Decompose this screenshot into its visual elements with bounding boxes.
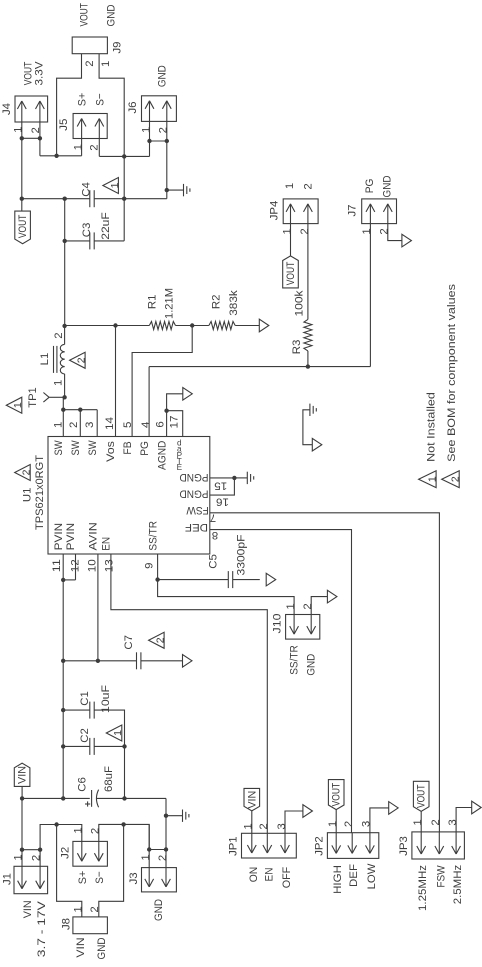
- J1 pin 2 number: [30, 855, 42, 861]
- connector J6 (GND banana): [142, 96, 177, 122]
- svg-text:2: 2: [89, 906, 101, 912]
- svg-text:4: 4: [140, 422, 152, 428]
- svg-text:JP2: JP2: [314, 836, 326, 856]
- J9 pin 2 number: [84, 60, 96, 66]
- svg-text:J6: J6: [127, 101, 139, 113]
- R3 value 100k: [294, 290, 306, 316]
- U1 right pin names: [179, 471, 208, 533]
- resistor R2: [209, 322, 235, 330]
- wire C3 right: [94, 240, 124, 242]
- U1 pin 12 PVIN wire: [75, 554, 77, 580]
- svg-text:DEF: DEF: [348, 864, 360, 887]
- svg-text:SS/TR: SS/TR: [289, 645, 301, 675]
- wire GND rail top: [94, 197, 167, 201]
- net flag VOUT at rail: [15, 199, 31, 244]
- svg-text:R2: R2: [211, 295, 223, 310]
- wire VIN to J8 pin1: [54, 822, 81, 917]
- svg-text:2.5MHz: 2.5MHz: [452, 864, 464, 904]
- note text Not Installed: [426, 392, 438, 462]
- svg-text:1: 1: [140, 127, 152, 133]
- svg-text:PG: PG: [364, 179, 376, 194]
- wire JP3 pin3 to GND arrow: [456, 808, 472, 832]
- J3 refdes label: [128, 872, 140, 884]
- svg-text:J10: J10: [272, 614, 284, 634]
- U1 top pin names: [53, 438, 183, 472]
- J3 pin 2 number: [157, 855, 169, 861]
- GND net arrow at J10: [327, 590, 337, 603]
- JP4 pin 1 number: [282, 228, 294, 234]
- svg-text:PVIN: PVIN: [65, 523, 77, 551]
- wire J6 pin tie: [147, 139, 169, 143]
- svg-text:GND: GND: [157, 65, 169, 87]
- svg-text:VOUT: VOUT: [331, 783, 343, 807]
- svg-text:9: 9: [143, 563, 155, 569]
- svg-text:C7: C7: [123, 635, 135, 650]
- ground symbol at J6: [165, 184, 190, 196]
- capacitor C4: [90, 190, 94, 207]
- GND net arrow at J7: [402, 234, 412, 247]
- svg-text:1: 1: [53, 380, 65, 386]
- connector J2 (sense S+ S-): [73, 841, 108, 866]
- svg-text:2: 2: [90, 828, 102, 834]
- wire SS/TR to J10: [158, 580, 295, 615]
- svg-text:3: 3: [84, 422, 96, 428]
- svg-text:EN: EN: [101, 537, 113, 551]
- R1 value 1.21M: [164, 288, 176, 319]
- svg-text:1: 1: [140, 854, 152, 860]
- connector J5 (sense S+ S-): [73, 114, 107, 139]
- capacitor C5: [158, 571, 260, 588]
- PGND net arrow at tie: [312, 438, 322, 451]
- svg-text:EN: EN: [263, 868, 275, 882]
- svg-text:J3: J3: [128, 872, 140, 884]
- J4 refdes label: [1, 103, 13, 115]
- capacitor C7: [137, 652, 183, 669]
- svg-text:3: 3: [447, 819, 459, 825]
- svg-text:JP3: JP3: [398, 836, 410, 856]
- svg-text:S+: S+: [77, 92, 89, 106]
- J7 net labels PG GND: [364, 176, 394, 198]
- svg-text:2: 2: [343, 821, 355, 827]
- wire J9 pin2 to VOUT sense: [57, 54, 82, 156]
- net flag VIN at JP1 pin1: [244, 788, 260, 833]
- svg-text:J9: J9: [112, 41, 124, 53]
- svg-text:14: 14: [104, 417, 116, 430]
- J1 net label VIN: [22, 900, 34, 918]
- J1 voltage label 3.7 - 17V: [36, 901, 48, 957]
- svg-text:5: 5: [122, 422, 134, 428]
- C1 refdes label: [79, 691, 91, 706]
- svg-text:10: 10: [86, 559, 98, 572]
- J4 pin 1 number: [12, 127, 24, 133]
- ground symbol at tie: [310, 404, 316, 416]
- U1 pin 7 FSW wire: [210, 513, 440, 832]
- wire J9 pin1 to GND rail: [99, 54, 124, 241]
- wire VOUT sense: [40, 154, 82, 158]
- J7 refdes label: [347, 204, 359, 216]
- svg-text:PGND: PGND: [179, 471, 208, 483]
- svg-text:2: 2: [450, 476, 462, 482]
- C5 refdes label: [208, 554, 220, 569]
- svg-text:11: 11: [51, 559, 63, 572]
- svg-text:17: 17: [168, 416, 180, 429]
- J8 labels VIN GND: [75, 937, 108, 959]
- svg-text:GND: GND: [306, 654, 318, 676]
- svg-text:TP1: TP1: [27, 387, 39, 408]
- note text See BOM for component values: [446, 284, 458, 462]
- svg-text:Vos: Vos: [105, 441, 117, 462]
- SW pins tie wire: [61, 408, 97, 412]
- svg-text:C2: C2: [79, 728, 91, 743]
- svg-text:J1: J1: [2, 873, 14, 885]
- svg-text:J7: J7: [347, 204, 359, 216]
- svg-text:2: 2: [258, 823, 270, 829]
- svg-text:ON: ON: [248, 867, 260, 882]
- J10 pin 1 number: [285, 603, 297, 609]
- svg-text:15: 15: [214, 480, 227, 492]
- capacitor C6 electrolytic: [85, 790, 166, 808]
- net flag VOUT at JP3 pin1: [413, 781, 429, 832]
- note triangle 1 at C4: [103, 178, 121, 194]
- wire J7 pin2 to GND arrow: [388, 224, 402, 241]
- svg-text:VIN: VIN: [246, 791, 258, 809]
- J8 pin 1 number: [72, 906, 84, 912]
- note triangle 2 at C7: [149, 632, 167, 648]
- connector J8 (VIN header): [73, 917, 108, 934]
- svg-text:1: 1: [73, 827, 85, 833]
- svg-text:1: 1: [282, 228, 294, 234]
- wire PVIN vertical: [62, 580, 64, 799]
- svg-text:3.3V: 3.3V: [34, 61, 46, 85]
- svg-text:FB: FB: [122, 441, 134, 454]
- svg-text:SW: SW: [70, 440, 82, 455]
- J9 net labels VOUT GND: [79, 3, 118, 27]
- svg-text:1.21M: 1.21M: [164, 288, 176, 319]
- J6 net label GND: [157, 65, 169, 87]
- svg-text:383k: 383k: [228, 290, 240, 316]
- connector J9 (output header): [72, 37, 107, 54]
- AGND net arrow: [183, 388, 193, 401]
- svg-text:SW: SW: [87, 440, 99, 455]
- U1 part number TPS621x0RGT: [34, 455, 46, 530]
- svg-text:SW: SW: [53, 440, 65, 455]
- svg-text:7: 7: [210, 511, 216, 523]
- connector J10: [286, 615, 320, 640]
- svg-text:1: 1: [412, 819, 424, 825]
- C6 refdes label: [77, 777, 89, 792]
- wire J1 pin2 up: [40, 825, 82, 867]
- net flag VIN at rail: [14, 763, 30, 798]
- wire AVIN C7 rail: [61, 659, 137, 663]
- wire VOUT vertical to L1: [64, 199, 66, 326]
- wire J4 pin tie: [20, 136, 43, 140]
- svg-text:1: 1: [12, 854, 24, 860]
- C2 refdes label: [79, 728, 91, 743]
- L1 pin 1 number: [53, 380, 65, 386]
- wire J2 pin2 GND run: [99, 822, 149, 849]
- wire J6 pin2 down to GND: [166, 121, 168, 198]
- note triangle 1 at C2: [106, 725, 124, 741]
- svg-text:1: 1: [100, 61, 112, 67]
- svg-text:12: 12: [69, 559, 81, 572]
- J10 pin 2 number: [302, 603, 314, 609]
- svg-text:HIGH: HIGH: [332, 865, 344, 894]
- C4 refdes label: [81, 182, 93, 197]
- note triangle 1 legend: [419, 471, 439, 488]
- capacitor C1: [61, 702, 125, 799]
- svg-text:1: 1: [243, 823, 255, 829]
- wire R1 to R2: [176, 323, 209, 327]
- svg-text:VOUT: VOUT: [285, 262, 297, 286]
- wire J10 pin2 to GND arrow: [311, 597, 327, 615]
- JP2 position labels: [332, 863, 378, 894]
- test point TP1: [43, 393, 66, 403]
- J4 net labels VOUT 3.3V: [23, 61, 46, 85]
- svg-text:J8: J8: [61, 918, 73, 930]
- svg-text:GND: GND: [96, 938, 108, 960]
- connector J7 (PG monitor): [362, 199, 397, 224]
- J6 pin 1 number: [140, 127, 152, 133]
- J2 pin 2 number: [90, 828, 102, 834]
- inductor L1: [54, 326, 65, 397]
- U1 pin 16 PGND wire: [210, 478, 235, 495]
- U1 pin 15 PGND wire: [210, 476, 237, 480]
- JP3 position labels: [417, 864, 464, 911]
- wire GND sense: [99, 154, 149, 158]
- R1 refdes label: [147, 295, 159, 310]
- wire J3 pin1 up: [148, 824, 150, 867]
- wire VOUT feedback rail: [62, 323, 149, 328]
- svg-text:1: 1: [284, 183, 296, 189]
- svg-text:TPS621x0RGT: TPS621x0RGT: [34, 455, 46, 530]
- J5 labels S+ S-: [77, 92, 107, 106]
- J6 refdes label: [127, 101, 139, 113]
- J4 pin 2 number: [30, 127, 42, 133]
- svg-text:68uF: 68uF: [103, 766, 115, 792]
- R3 refdes label: [291, 340, 303, 355]
- capacitor C2: [61, 738, 127, 755]
- svg-text:R1: R1: [147, 295, 159, 310]
- J10 refdes label: [272, 614, 284, 634]
- svg-text:LOW: LOW: [366, 863, 378, 889]
- L1 refdes label: [39, 353, 51, 366]
- wire JP4 pin1 to VOUT flag: [290, 224, 292, 256]
- connector JP3: [412, 832, 465, 859]
- C6 value 68uF: [103, 766, 115, 792]
- U1 pin 6 AGND wire: [164, 394, 183, 437]
- ground symbol at PGND: [234, 472, 253, 484]
- J2 labels S+ S-: [77, 870, 106, 884]
- svg-text:2: 2: [430, 819, 442, 825]
- svg-text:2: 2: [84, 60, 96, 66]
- svg-text:1: 1: [327, 821, 339, 827]
- svg-text:C5: C5: [208, 554, 220, 569]
- svg-text:S+: S+: [77, 870, 89, 884]
- svg-text:C4: C4: [81, 182, 93, 197]
- wire JP2 pin3 to GND arrow: [370, 808, 389, 833]
- svg-text:1: 1: [112, 730, 124, 736]
- svg-text:OFF: OFF: [281, 867, 293, 889]
- JP1 position labels: [248, 867, 293, 889]
- JP1 refdes label: [228, 836, 240, 856]
- resistor R3: [304, 319, 312, 366]
- svg-text:16: 16: [216, 496, 229, 508]
- svg-text:2: 2: [302, 603, 314, 609]
- GND net arrow at C7: [183, 655, 193, 668]
- svg-text:VOUT: VOUT: [416, 784, 428, 808]
- net flag VOUT at JP4: [283, 256, 299, 288]
- svg-text:6: 6: [154, 421, 166, 427]
- U1 bottom pin numbers: [51, 559, 155, 572]
- svg-text:3: 3: [276, 823, 288, 829]
- svg-text:C6: C6: [77, 777, 89, 792]
- svg-text:VOUT: VOUT: [79, 3, 91, 27]
- JP2 refdes label: [314, 836, 326, 856]
- U1 pin 1 SW wire: [62, 397, 64, 436]
- svg-text:2: 2: [157, 855, 169, 861]
- U1 pin 14 Vos wire: [115, 326, 117, 437]
- J8 pin 2 number: [89, 906, 101, 912]
- svg-text:U1: U1: [22, 488, 34, 503]
- ground symbol at C6: [166, 810, 189, 822]
- connector JP2: [327, 833, 378, 859]
- J2 refdes label: [60, 847, 72, 859]
- U1 pin 11 PVIN wire: [62, 554, 64, 580]
- R2 value 383k: [228, 290, 240, 316]
- R2 refdes label: [211, 295, 223, 310]
- GND net arrow at JP2: [389, 802, 399, 815]
- note triangle 1 at TP1: [6, 397, 24, 413]
- svg-text:100k: 100k: [294, 290, 306, 316]
- J7 pin 2 number: [379, 228, 391, 234]
- svg-text:FSW: FSW: [186, 504, 209, 516]
- svg-text:2: 2: [53, 332, 65, 338]
- J5 pin 1 number: [73, 144, 85, 150]
- GND net arrow at JP1: [303, 805, 313, 818]
- JP3 pin numbers: [412, 819, 459, 825]
- svg-text:13: 13: [104, 559, 116, 572]
- U1 pin 10 AVIN wire: [97, 554, 99, 661]
- note triangle 2 at U1: [15, 465, 33, 481]
- svg-text:2: 2: [155, 637, 167, 643]
- svg-text:DEF: DEF: [185, 521, 208, 533]
- capacitor C3: [90, 232, 94, 249]
- wire C3 left: [62, 239, 89, 243]
- JP3 refdes label: [398, 836, 410, 856]
- connector J3 (GND banana): [142, 868, 177, 892]
- svg-text:VOUT: VOUT: [17, 214, 29, 238]
- resistor R1: [149, 322, 175, 330]
- svg-text:3.7 - 17V: 3.7 - 17V: [36, 901, 48, 957]
- svg-text:GND: GND: [106, 5, 118, 27]
- U1 pin 17 ETPad wire: [167, 411, 183, 437]
- C5 value 3300pF: [236, 534, 248, 575]
- J1 pin tie wire: [20, 848, 43, 852]
- svg-text:1.25MHz: 1.25MHz: [417, 865, 429, 911]
- C7 refdes label: [123, 635, 135, 650]
- J9 refdes label: [112, 41, 124, 53]
- U1 pin 9 SS/TR wire: [155, 554, 159, 582]
- wire J1 pin1 to VIN rail: [21, 798, 23, 866]
- connector JP4 (PG header): [283, 199, 318, 224]
- AGND to PGND tie: [303, 410, 312, 445]
- wire PG net: [149, 364, 370, 368]
- svg-text:1: 1: [361, 228, 373, 234]
- J2 pin 1 number: [73, 827, 85, 833]
- svg-text:2: 2: [299, 228, 311, 234]
- TP1 refdes label: [27, 387, 39, 408]
- U1 pin 4 PG wire: [148, 367, 150, 437]
- wire J4 pin2 down: [39, 122, 41, 156]
- svg-text:C3: C3: [81, 223, 93, 238]
- svg-text:VIN: VIN: [75, 937, 87, 957]
- U1 pin 8 DEF wire: [210, 530, 352, 833]
- wire VIN rail: [20, 796, 90, 800]
- svg-text:3300pF: 3300pF: [236, 534, 248, 575]
- U1 pin 13 EN wire: [111, 554, 267, 833]
- svg-text:1: 1: [285, 603, 297, 609]
- J8 refdes label: [61, 918, 73, 930]
- wire J4 pin1 down to VOUT rail: [21, 122, 23, 199]
- L1 pin 2 number: [53, 332, 65, 338]
- svg-text:PGND: PGND: [179, 487, 208, 499]
- svg-text:J4: J4: [1, 103, 13, 115]
- svg-text:2: 2: [379, 228, 391, 234]
- PVIN pins tie wire: [61, 578, 76, 582]
- svg-text:2: 2: [76, 357, 88, 363]
- svg-text:10uF: 10uF: [100, 685, 112, 713]
- J7 pin 1 number: [361, 228, 373, 234]
- U1 bottom pin names: [53, 521, 159, 551]
- wire JP1 pin3 to GND arrow: [285, 811, 303, 833]
- svg-text:1: 1: [73, 144, 85, 150]
- svg-text:1: 1: [12, 127, 24, 133]
- svg-text:S−: S−: [95, 93, 107, 106]
- U1 pin 2 SW wire: [79, 410, 81, 437]
- wire J6 pin1 down: [149, 121, 151, 156]
- svg-text:S−: S−: [94, 871, 106, 884]
- U1 pin 5 FB wire: [132, 326, 192, 437]
- svg-text:1: 1: [72, 906, 84, 912]
- svg-text:3: 3: [361, 821, 373, 827]
- J10 labels SS/TR GND: [289, 645, 318, 675]
- svg-text:L1: L1: [39, 353, 51, 366]
- wire VOUT rail top: [20, 197, 90, 201]
- JP4 pin 2 number: [299, 228, 311, 234]
- J6 pin 2 number: [158, 127, 170, 133]
- svg-text:2: 2: [158, 127, 170, 133]
- C3 value 22uF: [100, 212, 112, 240]
- wire R2 to GND arrow: [235, 325, 259, 327]
- svg-text:PVIN: PVIN: [53, 523, 65, 551]
- J3 net label GND: [153, 899, 165, 921]
- svg-text:AVIN: AVIN: [88, 522, 100, 550]
- svg-text:JP4: JP4: [269, 201, 281, 221]
- J1 pin 1 number: [12, 854, 24, 860]
- JP4 pin numbers outside: [284, 183, 314, 190]
- svg-text:8: 8: [212, 529, 218, 541]
- J1 refdes label: [2, 873, 14, 885]
- U1 top pin numbers: [53, 416, 181, 431]
- JP2 pin numbers: [327, 821, 373, 827]
- wire J5 pin1 to VOUT sense: [81, 139, 83, 156]
- connector J1 (VIN banana): [14, 866, 48, 893]
- wire C6 to GND symbol: [164, 798, 168, 867]
- svg-text:1: 1: [109, 182, 121, 188]
- GND net arrow at JP3: [472, 801, 482, 814]
- svg-text:1: 1: [12, 402, 24, 408]
- wire JP4 pin2 to R3: [307, 224, 309, 320]
